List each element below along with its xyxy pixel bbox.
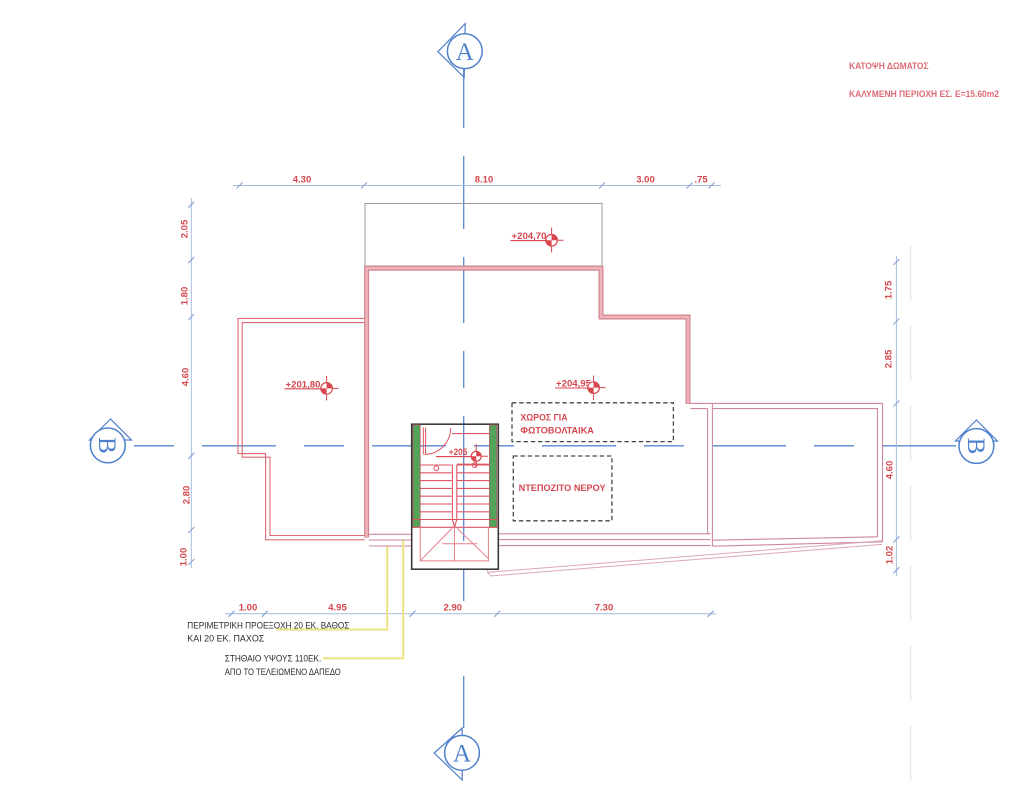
svg-text:1.75: 1.75: [884, 280, 895, 299]
lower-left roof outline (double red line): [238, 318, 365, 539]
svg-text:+204,95: +204,95: [556, 379, 591, 389]
svg-text:7.30: 7.30: [595, 603, 614, 614]
stair wall right (green): [489, 425, 496, 527]
svg-text:+204,70: +204,70: [512, 231, 547, 241]
spot elevation +204,95: [555, 376, 606, 401]
upper roof outline (grey): [365, 204, 602, 267]
svg-text:4.60: 4.60: [885, 461, 896, 480]
newel circle left flight: [434, 466, 439, 471]
lower balcony sloped edge: [488, 541, 882, 576]
stairwell box: [412, 424, 499, 569]
svg-text:+201,80: +201,80: [286, 380, 321, 390]
stair center stringer wedge: [452, 465, 456, 528]
main parapet wall (thick salmon band): [367, 268, 688, 537]
axis A centerline (vertical): [463, 68, 465, 728]
svg-text:8.10: 8.10: [475, 175, 494, 186]
section marker A top: [438, 24, 482, 78]
svg-text:4.95: 4.95: [328, 603, 347, 614]
svg-text:4.60: 4.60: [181, 368, 192, 387]
yellow leader overhang: [277, 547, 388, 630]
svg-text:ΚΑΛΥΜΕΝΗ ΠΕΡΙΟΧΗ ΕΣ. Ε=15.60m2: ΚΑΛΥΜΕΝΗ ΠΕΡΙΟΧΗ ΕΣ. Ε=15.60m2: [849, 89, 999, 99]
svg-text:ΠΕΡΙΜΕΤΡΙΚΗ ΠΡΟΕΞΟΧΗ 20 ΕΚ.: ΠΕΡΙΜΕΤΡΙΚΗ ΠΡΟΕΞΟΧΗ 20 ΕΚ. ΒΑΘΟΣ: [187, 620, 349, 631]
svg-text:2.05: 2.05: [180, 219, 191, 238]
svg-text:ΚΑΙ 20 ΕΚ. ΠΑΧΟΣ: ΚΑΙ 20 ΕΚ. ΠΑΧΟΣ: [187, 634, 264, 645]
left dimension labels: [179, 219, 193, 566]
photovoltaics label: [521, 413, 595, 436]
svg-text:ΚΑΤΟΨΗ ΔΩΜΑΤΟΣ: ΚΑΤΟΨΗ ΔΩΜΑΤΟΣ: [849, 61, 929, 71]
upper landing edge: [452, 433, 489, 435]
axis B centerline (horizontal): [134, 445, 957, 447]
svg-text:.75: .75: [694, 175, 708, 186]
right dimension line: [895, 256, 897, 576]
newel circle right flight: [472, 463, 477, 468]
svg-text:+205: +205: [449, 447, 468, 457]
svg-text:A: A: [453, 740, 471, 767]
top dimension labels: [293, 175, 709, 186]
spot elevation +201,80: [285, 376, 339, 401]
spot elevation +205: [436, 444, 488, 468]
svg-text:B: B: [93, 437, 120, 454]
bottom parapet wall left segment: [369, 534, 412, 546]
page fold line: [910, 246, 912, 790]
step between roof and terrace (double rose line): [690, 403, 712, 546]
yellow leader parapet: [323, 541, 403, 659]
bottom dimension labels: [239, 603, 614, 614]
svg-text:1.00: 1.00: [179, 548, 190, 567]
stair landing lines full width: [413, 520, 497, 528]
svg-text:2.90: 2.90: [444, 603, 463, 614]
svg-text:3.00: 3.00: [636, 175, 655, 186]
left dimension line: [190, 198, 192, 568]
svg-text:ΧΩΡΟΣ ΓΙΑ: ΧΩΡΟΣ ΓΙΑ: [521, 413, 568, 423]
svg-text:B: B: [962, 438, 989, 455]
svg-text:2.85: 2.85: [884, 349, 895, 368]
right terrace outline (double rose line): [712, 403, 882, 546]
section marker A bottom: [434, 728, 479, 780]
svg-text:1.80: 1.80: [180, 287, 191, 306]
lower landing outline: [420, 527, 488, 561]
svg-text:ΝΤΕΠΟΖΙΤΟ ΝΕΡΟΥ: ΝΤΕΠΟΖΙΤΟ ΝΕΡΟΥ: [519, 483, 606, 493]
svg-text:2.80: 2.80: [182, 486, 193, 505]
svg-text:ΣΤΗΘΑΙΟ ΥΨΟΥΣ 110ΕΚ.: ΣΤΗΘΑΙΟ ΥΨΟΥΣ 110ΕΚ.: [225, 654, 321, 665]
stair wall left (green): [413, 425, 420, 527]
bottom parapet wall right segment: [499, 534, 711, 546]
svg-text:4.30: 4.30: [293, 175, 312, 186]
section marker B left: [90, 419, 132, 463]
door leaf: [423, 428, 425, 455]
svg-text:1.00: 1.00: [239, 603, 258, 614]
photovoltaics dashed box: [512, 403, 673, 442]
bottom dimension line: [225, 613, 716, 615]
svg-text:ΦΩΤΟΒΟΛΤΑΙΚΑ: ΦΩΤΟΒΟΛΤΑΙΚΑ: [521, 425, 595, 435]
water tank dashed box: [513, 456, 612, 521]
section marker B right: [955, 420, 997, 463]
lower landing diagonals: [420, 527, 488, 561]
svg-text:1.02: 1.02: [885, 546, 896, 565]
spot elevation +204,70: [511, 228, 564, 253]
svg-text:A: A: [456, 39, 474, 66]
door swing arc: [425, 428, 451, 454]
stair flight right steps: [457, 464, 489, 512]
stair flight left steps: [420, 465, 451, 512]
right dimension labels: [884, 280, 896, 564]
top dimension line: [233, 185, 721, 187]
svg-text:ΑΠΟ ΤΟ ΤΕΛΕΙΩΜΕΝΟ ΔΑΠΕΔΟ: ΑΠΟ ΤΟ ΤΕΛΕΙΩΜΕΝΟ ΔΑΠΕΔΟ: [225, 667, 341, 678]
